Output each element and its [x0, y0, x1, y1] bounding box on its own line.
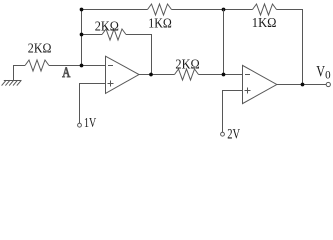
svg-text:1KΩ: 1KΩ — [148, 15, 172, 30]
wire opamp2 output row — [277, 84, 326, 86]
terminal V0 — [326, 82, 330, 86]
wire opamp2 plus input from 2V — [223, 91, 243, 133]
wire feedback row — [82, 34, 103, 36]
terminal 1V — [78, 123, 82, 127]
terminal 2V — [221, 132, 225, 136]
svg-text:0: 0 — [325, 70, 331, 82]
wire middle vertical drop — [223, 10, 225, 75]
wire top row middle — [172, 9, 253, 11]
wire to opamp2 minus input — [199, 74, 243, 76]
junction output node — [301, 83, 305, 87]
resistor 1K top-first — [148, 4, 172, 15]
wire opamp1 output row — [139, 74, 175, 76]
op-amp U1 — [106, 56, 140, 93]
svg-text:A: A — [62, 65, 71, 81]
ground — [2, 80, 22, 85]
junction opamp2 minus node — [222, 73, 226, 77]
resistor R1 2K left — [25, 60, 49, 71]
wire opamp1 plus input from 1V — [80, 84, 106, 124]
wire top row left — [82, 9, 148, 11]
wire left vertical (node A riser) — [81, 10, 83, 66]
svg-text:1V: 1V — [84, 116, 96, 131]
op-amp U2 plus sign — [245, 88, 251, 94]
op-amp U2 — [243, 65, 277, 103]
svg-text:2KΩ: 2KΩ — [95, 18, 119, 33]
junction top-middle — [222, 8, 226, 12]
node A junction — [80, 64, 84, 68]
resistor 1K top-second — [253, 4, 277, 15]
svg-text:1KΩ: 1KΩ — [252, 15, 277, 30]
junction top-left — [80, 8, 84, 12]
svg-text:2V: 2V — [227, 126, 240, 139]
op-amp U1 minus sign — [108, 65, 113, 67]
junction opamp1 output — [149, 73, 153, 77]
resistor R4 2K middle — [175, 69, 199, 80]
resistor R2 2K feedback — [102, 29, 126, 40]
wire top row right + right drop — [277, 10, 303, 85]
op-amp U1 plus sign — [108, 81, 114, 87]
wire feedback to opamp1 output — [126, 35, 152, 75]
junction feedback-left — [80, 33, 84, 37]
wire R1 to opamp1 minus input — [49, 65, 106, 67]
wire ground riser — [14, 66, 26, 81]
op-amp U2 minus sign — [245, 74, 250, 76]
svg-text:2KΩ: 2KΩ — [28, 41, 52, 56]
svg-text:2KΩ: 2KΩ — [175, 57, 199, 72]
